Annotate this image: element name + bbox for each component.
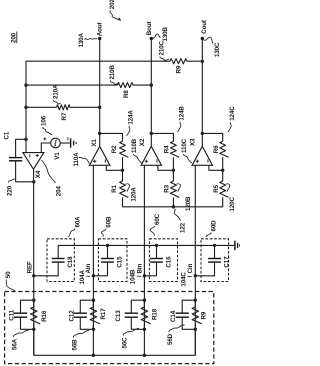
svg-text:X3: X3 [190, 138, 197, 146]
svg-text:C11: C11 [9, 309, 16, 320]
svg-text:130A: 130A [78, 32, 85, 47]
svg-text:R16: R16 [41, 310, 48, 322]
wire C11 bottom lead [21, 318, 34, 330]
node Bout terminal [150, 37, 153, 40]
svg-text:R3: R3 [163, 184, 170, 192]
wire C15 top lead [107, 245, 109, 258]
label 110A with leader [73, 152, 89, 167]
junction C16 bottom [143, 274, 146, 277]
junction X1 output to feedback [98, 132, 101, 135]
resistor R16 (parallel) [31, 307, 41, 324]
junction rail-bus3 [24, 106, 27, 109]
svg-text:106: 106 [41, 115, 48, 126]
wire C17 bottom lead [195, 263, 214, 276]
capacitor C14 [176, 313, 189, 317]
label 120A with leader [126, 184, 138, 202]
label 106 with leader [41, 115, 52, 135]
svg-text:C17: C17 [223, 256, 230, 268]
svg-text:R8: R8 [123, 90, 130, 98]
svg-text:R2: R2 [111, 145, 118, 153]
voltage source V1 [51, 138, 61, 148]
svg-text:X1: X1 [91, 139, 98, 147]
label 104B with squiggle [129, 269, 141, 284]
wire R3 top lead [172, 170, 174, 181]
capacitor C12 [74, 313, 87, 317]
label 60B with leader [102, 216, 113, 237]
svg-text:124C: 124C [229, 106, 236, 121]
wire C17 top lead [214, 245, 216, 258]
junction X2 output to feedback [150, 132, 153, 135]
svg-text:130B: 130B [162, 26, 169, 41]
junction rail-bus2 [24, 83, 27, 86]
svg-text:R9: R9 [201, 311, 208, 319]
label 124C with leader [228, 106, 236, 132]
label 210C [158, 40, 169, 60]
label 124A with leader [127, 110, 135, 136]
svg-text:104C: 104C [180, 272, 187, 287]
junction C1-output [32, 180, 35, 183]
svg-text:124A: 124A [128, 110, 135, 125]
svg-text:110B: 110B [131, 138, 138, 153]
svg-text:R5: R5 [213, 184, 220, 192]
resistor R8 (branch 210B) [118, 83, 134, 88]
junction C16-top-bus [155, 244, 158, 247]
junction C12/R17 bottom [92, 328, 95, 331]
svg-text:R9: R9 [175, 65, 182, 73]
wire feedback bus 210B left segment [26, 84, 118, 86]
wire C14 top lead [182, 300, 195, 313]
junction C11/R16 top [32, 299, 35, 302]
op-amp X4 (down-pointing) [23, 153, 44, 170]
label 104A with squiggle [79, 269, 90, 284]
svg-text:110C: 110C [181, 138, 188, 153]
wire R16 leads [33, 300, 35, 307]
junction R9-Cout [201, 60, 204, 63]
svg-text:C13: C13 [115, 310, 122, 322]
wire R4 bottom lead [172, 157, 174, 170]
label 110C with leader [181, 138, 192, 163]
svg-text:210C: 210C [158, 40, 165, 55]
wire R9 leads [194, 300, 196, 307]
label 120C with leader [226, 184, 236, 212]
wire R5 top lead [222, 170, 224, 181]
dashed box 60A [47, 239, 74, 282]
label 210A [52, 84, 61, 104]
junction C15 bottom [92, 274, 95, 277]
wire R3 bottom to bus [172, 197, 174, 206]
junction C13/R18 top [143, 299, 146, 302]
svg-text:R7: R7 [61, 112, 68, 120]
wire Ain vertical [92, 165, 94, 355]
svg-text:120A: 120A [130, 187, 137, 202]
wire R9 to Cout [187, 60, 202, 62]
junction C17-top-bus [213, 244, 216, 247]
svg-text:R6: R6 [213, 145, 220, 153]
resistor R9 (parallel) [192, 307, 202, 324]
svg-text:X4: X4 [35, 170, 42, 178]
svg-text:56B: 56B [72, 339, 79, 351]
svg-text:Cout: Cout [201, 20, 208, 34]
wire Bin vertical [143, 165, 145, 355]
svg-text:60A: 60A [74, 216, 81, 228]
junction C15-top-bus [106, 244, 109, 247]
dashed box 60C [149, 239, 177, 282]
wire R18 leads [143, 300, 145, 307]
wire node-122 bus [123, 197, 223, 206]
wire Cin vertical [194, 165, 196, 355]
label 56C with leader [121, 328, 139, 348]
svg-text:Bout: Bout [146, 21, 153, 35]
capacitor C13 [125, 313, 138, 317]
svg-text:110A: 110A [73, 152, 80, 167]
wire C12 bottom lead [80, 318, 93, 330]
junction C11/R16 bottom [32, 328, 35, 331]
label 210B [109, 64, 118, 84]
wire C12 top lead [80, 300, 93, 313]
junction C12/R17 top [92, 299, 95, 302]
svg-text:56A: 56A [12, 338, 19, 350]
label 122 with leader [174, 209, 186, 233]
resistor R7 (branch 210A) [57, 105, 71, 110]
label 130B [153, 26, 169, 41]
svg-text:104B: 104B [129, 269, 136, 284]
label 56D with leader [167, 325, 185, 345]
wire R7 to Aout [70, 106, 100, 108]
op-amp X1 (up-pointing) [90, 146, 110, 165]
svg-text:124B: 124B [179, 106, 186, 121]
junction C14/R9 bottom [194, 328, 197, 331]
svg-text:C18: C18 [67, 256, 74, 268]
wire Aout vertical [99, 39, 101, 147]
junction R7-Aout [98, 106, 101, 109]
wire X4 output to REF rail [33, 169, 35, 355]
junction X3 output to feedback [201, 132, 204, 135]
wire inverting rail vertical [25, 61, 27, 153]
label 120B with leader [177, 184, 193, 211]
svg-text:210B: 210B [109, 64, 116, 79]
capacitor C17 [208, 259, 221, 263]
svg-text:56D: 56D [167, 333, 174, 345]
junction C14/R9 top [194, 299, 197, 302]
node Cout terminal [201, 37, 204, 40]
svg-text:C12: C12 [68, 310, 75, 322]
svg-text:60D: 60D [211, 220, 218, 232]
wire R1 top lead [122, 170, 124, 181]
capacitor C15 [101, 259, 114, 263]
junction R4-R3 [172, 169, 175, 172]
svg-text:104A: 104A [79, 269, 86, 284]
capacitor C1 [9, 158, 22, 161]
svg-text:202: 202 [109, 0, 116, 9]
resistor R3 (input) [171, 181, 180, 197]
label 130C [204, 37, 221, 57]
label 104C with squiggle [180, 272, 191, 287]
svg-text:Aout: Aout [97, 22, 104, 36]
svg-text:120C: 120C [229, 196, 236, 211]
svg-text:200: 200 [10, 32, 17, 43]
svg-text:V1: V1 [54, 152, 61, 160]
wire C15 bottom lead [93, 263, 107, 276]
label 60D with leader [206, 220, 218, 237]
dashed box 50 [5, 292, 214, 364]
junction Ain-bottom bus [92, 354, 95, 357]
label 60C with leader [150, 213, 161, 235]
wire R2 bottom lead [122, 157, 124, 170]
label 50 with leader [5, 271, 15, 291]
op-amp X2 (up-pointing) [141, 146, 161, 165]
resistor R1 (input) [120, 181, 129, 197]
label 124B with leader [178, 106, 186, 132]
wire C16 bottom lead [144, 263, 156, 276]
svg-text:220: 220 [6, 185, 13, 196]
dashed box 60D [201, 239, 229, 282]
svg-text:R17: R17 [100, 308, 107, 320]
resistor R9 (branch 210C) [170, 59, 187, 64]
label 56A with leader [12, 330, 30, 350]
V1 minus sign [67, 137, 69, 140]
wire feedback bus 210C left segment [26, 60, 170, 62]
wire Bout vertical [150, 39, 152, 147]
wire C16 top lead [156, 245, 158, 258]
capacitor C11 [14, 313, 27, 317]
svg-text:60B: 60B [105, 216, 112, 228]
junction R8-Bout [150, 83, 153, 86]
label 204 with leader [42, 160, 63, 196]
svg-text:R18: R18 [152, 308, 159, 320]
label 220 [6, 179, 14, 196]
label 200 underlined [10, 32, 17, 44]
wire C13 top lead [131, 300, 144, 313]
wire X1 inverting stub [106, 165, 122, 170]
wire X4 noninverting stub to V1 [41, 143, 50, 153]
svg-text:210A: 210A [52, 84, 59, 99]
svg-text:C16: C16 [165, 256, 172, 268]
capacitor C16 [150, 259, 163, 263]
wire X2 inverting stub [158, 165, 174, 170]
junction C18 bottom [32, 274, 35, 277]
wire capacitor top bus [58, 245, 235, 258]
svg-text:50: 50 [5, 271, 12, 278]
resistor R2 (feedback) [120, 141, 129, 157]
wire R6 bottom lead [222, 157, 224, 170]
wire C1 bottom lead [16, 161, 34, 182]
svg-text:X2: X2 [139, 138, 146, 146]
junction R6-R5 [221, 169, 224, 172]
junction R3-bus122 [172, 205, 175, 208]
V1 plus sign [43, 137, 46, 140]
wire Cout vertical [201, 39, 203, 147]
label 130A [78, 32, 97, 47]
resistor R17 (parallel) [90, 307, 100, 324]
label 56B with leader [72, 330, 90, 350]
label 202 with leader arrow [109, 0, 121, 22]
wire R17 leads [92, 300, 94, 307]
wire X3 inverting stub [209, 165, 223, 170]
wire feedback bus 210A left segment [26, 106, 57, 108]
svg-text:60C: 60C [154, 213, 161, 225]
node Aout terminal [98, 37, 101, 40]
junction C13/R18 bottom [143, 328, 146, 331]
svg-text:C14: C14 [170, 310, 177, 322]
label 60A with leader [68, 216, 81, 237]
svg-text:C1: C1 [4, 131, 11, 139]
resistor R4 (feedback) [171, 141, 180, 157]
label 110B with leader [131, 138, 142, 163]
wire X1 output horizontal to feedback resistor [100, 133, 123, 141]
wire C11 top lead [21, 300, 34, 313]
wire C18 bottom lead [34, 263, 58, 276]
svg-text:R1: R1 [111, 184, 118, 192]
junction R2-R1 [121, 169, 124, 172]
svg-text:Bin: Bin [136, 264, 143, 274]
svg-text:C15: C15 [116, 256, 123, 268]
svg-text:130C: 130C [214, 42, 221, 57]
svg-text:204: 204 [56, 186, 63, 197]
junction rail-C1 top [24, 138, 27, 141]
svg-text:120B: 120B [185, 196, 192, 211]
wire V1 to ground [60, 142, 70, 144]
wire X3 output horizontal to feedback resistor [202, 133, 222, 141]
svg-text:REF: REF [26, 261, 33, 273]
resistor R5 (input) [220, 181, 229, 197]
svg-text:Cin: Cin [187, 263, 194, 273]
ground symbol at cap bus [235, 241, 240, 250]
wire X2 output horizontal to feedback resistor [151, 133, 173, 141]
resistor R18 (parallel) [141, 307, 151, 324]
capacitor C18 [52, 259, 65, 263]
wire box-50 bottom bus [34, 329, 196, 355]
op-amp X3 (up-pointing) [192, 146, 212, 165]
svg-text:R4: R4 [163, 145, 170, 153]
wire C13 bottom lead [131, 318, 144, 330]
wire C1 top lead [16, 139, 26, 157]
resistor R6 (feedback) [220, 141, 229, 157]
wire C14 bottom lead [182, 318, 195, 330]
svg-text:56C: 56C [121, 337, 128, 349]
junction C17 bottom [194, 274, 197, 277]
dashed box 60B [98, 239, 127, 282]
ground symbol at V1 [71, 138, 77, 147]
wire R8 to Bout [133, 84, 151, 86]
junction Bin-bottom bus [143, 354, 146, 357]
svg-text:122: 122 [179, 222, 186, 233]
